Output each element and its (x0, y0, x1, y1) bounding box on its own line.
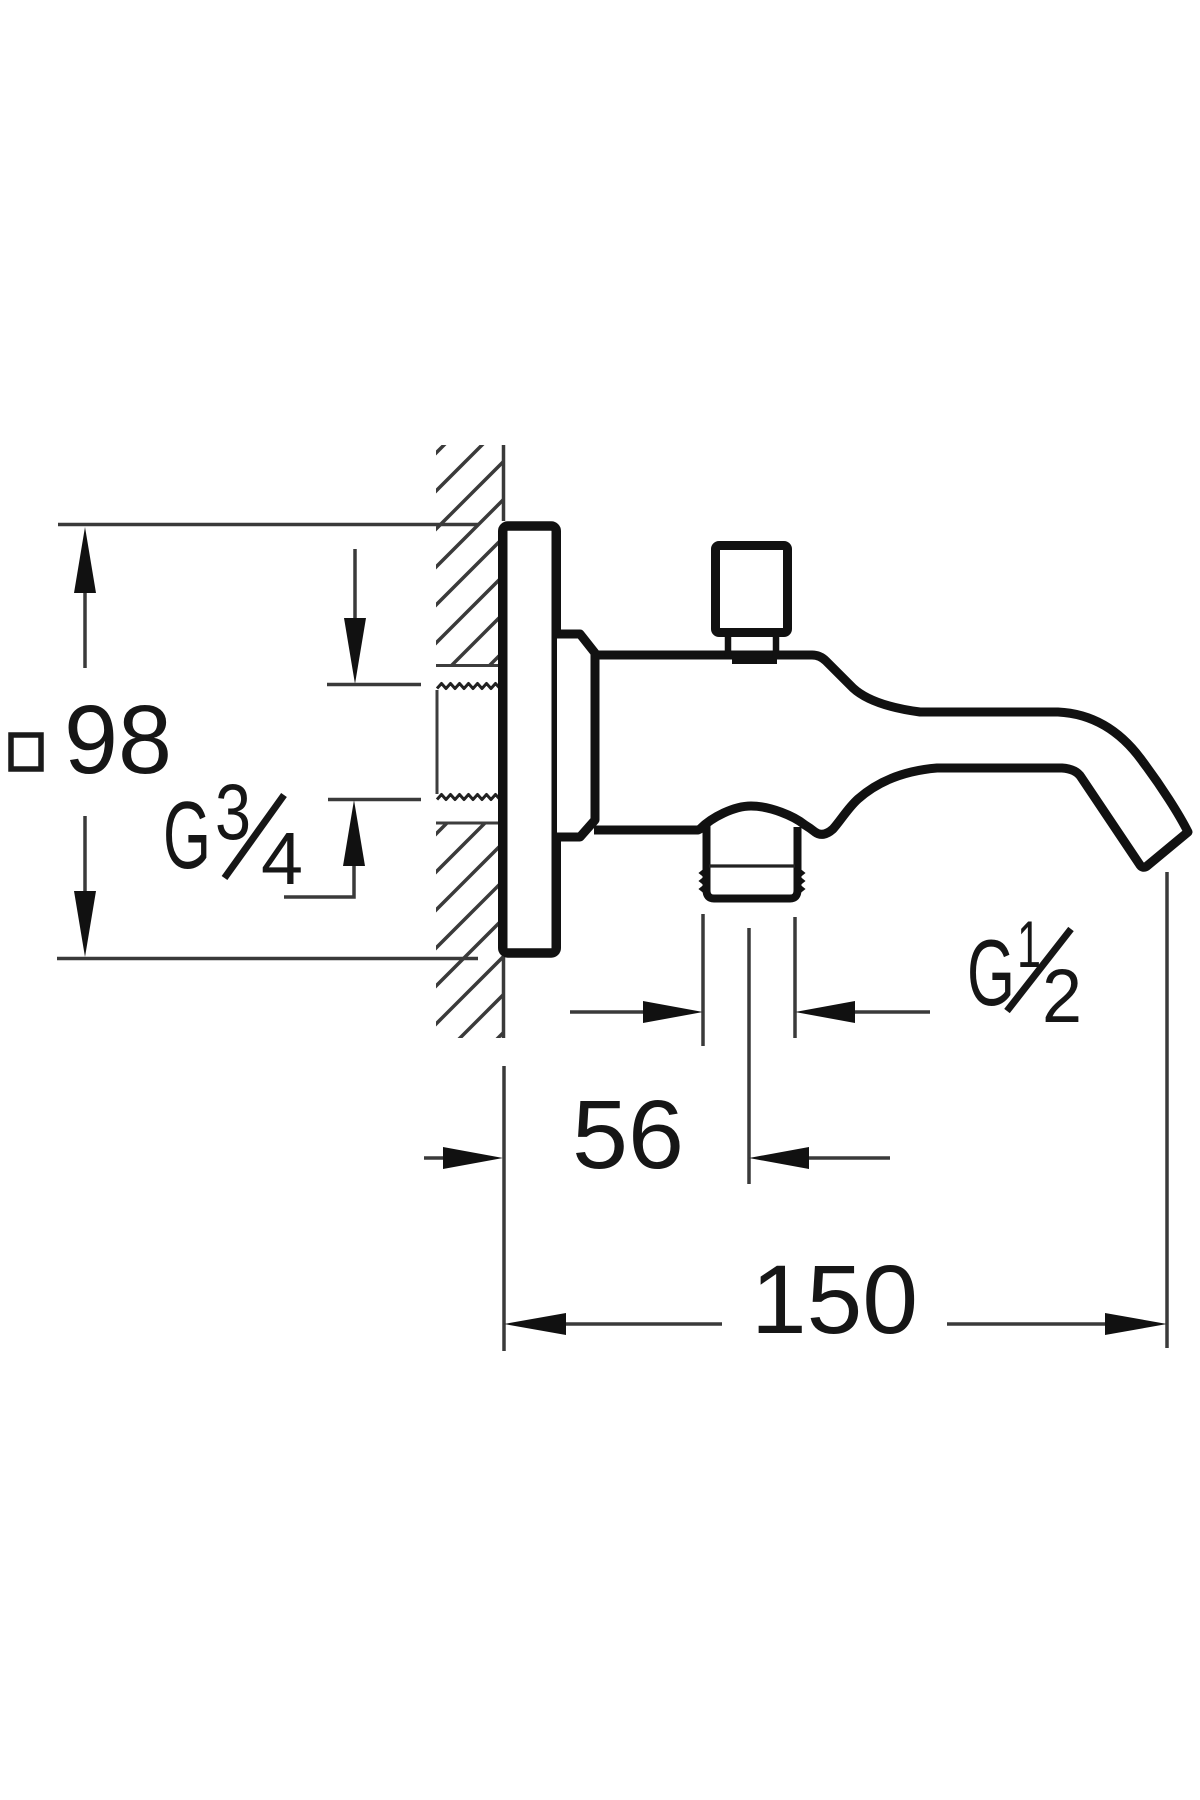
neck fillet bar (732, 658, 777, 664)
dim 98 vertical line lower segment with down arrow (83, 816, 87, 925)
flange between plate and body (557, 634, 595, 837)
dim 150 right extension line (1165, 872, 1169, 1348)
outlet left extension line (701, 914, 705, 1046)
dim 150 line right arrow (947, 1322, 1105, 1326)
outlet thread ticks left (701, 869, 706, 893)
diverter knob neck (725, 637, 732, 657)
dim 98 bottom extension line (57, 957, 478, 961)
wall face line below plate (502, 957, 506, 1038)
outlet right extension line (793, 917, 797, 1038)
diverter knob (716, 546, 788, 633)
svg-text:150: 150 (751, 1245, 918, 1354)
svg-text:98: 98 (64, 685, 172, 794)
dim 56 right arrow (808, 1156, 890, 1160)
G3/4 thread box left edge (436, 690, 439, 794)
hatch band boundary below thread box (436, 822, 500, 825)
thread box top extension line (327, 683, 421, 687)
outlet thread ticks right (798, 869, 803, 893)
dim 98 top extension line (58, 523, 478, 527)
square symbol (11, 735, 41, 769)
wall face line above plate (502, 445, 506, 521)
thread box bottom extension line (328, 798, 421, 802)
wall hatching lower band (0, 400, 1136, 1550)
G1/2 dim left arrow (570, 1010, 648, 1014)
hatch band boundary above thread box (436, 664, 500, 667)
G3/4 thread box bottom squiggle (437, 795, 500, 800)
inner down arrow to thread box top (353, 549, 357, 625)
faucet body and spout outline (594, 655, 1188, 867)
svg-text:G: G (163, 782, 211, 889)
outlet center extension line (747, 928, 751, 1184)
svg-text:4: 4 (261, 817, 303, 900)
G1/2 dim right arrow (850, 1010, 930, 1014)
dim 150 line left arrow (504, 1313, 566, 1335)
svg-text:56: 56 (572, 1080, 684, 1189)
dim 56 left arrow (424, 1156, 448, 1160)
svg-text:2: 2 (1042, 954, 1082, 1039)
dim 150 left extension line (502, 1066, 506, 1351)
G3/4 thread box top squiggle (437, 684, 500, 689)
inner up arrow to thread box bottom with bent leader (343, 800, 365, 866)
wall plate (escutcheon) (503, 526, 557, 953)
dim 98 vertical line upper segment with up arrow (83, 560, 87, 668)
wall hatching upper band (0, 400, 793, 1150)
bottom outlet connector (707, 826, 798, 899)
outlet hex/thread divider (709, 864, 795, 867)
